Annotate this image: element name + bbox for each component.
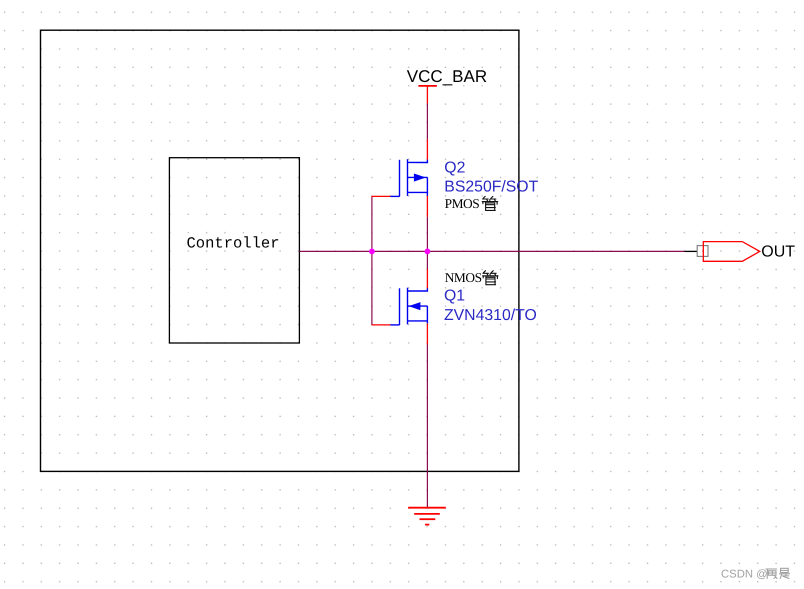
svg-text:PMOS: PMOS [445, 196, 480, 211]
svg-text:ZVN4310/TO: ZVN4310/TO [444, 307, 537, 324]
svg-text:OUT: OUT [761, 244, 795, 261]
svg-text:Q1: Q1 [444, 287, 465, 304]
svg-text:CSDN @: CSDN @ [721, 569, 768, 581]
svg-text:Q2: Q2 [444, 160, 465, 177]
svg-text:Controller: Controller [187, 234, 280, 252]
svg-text:NMOS: NMOS [445, 270, 482, 285]
svg-text:BS250F/SOT: BS250F/SOT [444, 179, 538, 196]
svg-text:VCC_BAR: VCC_BAR [407, 67, 487, 86]
